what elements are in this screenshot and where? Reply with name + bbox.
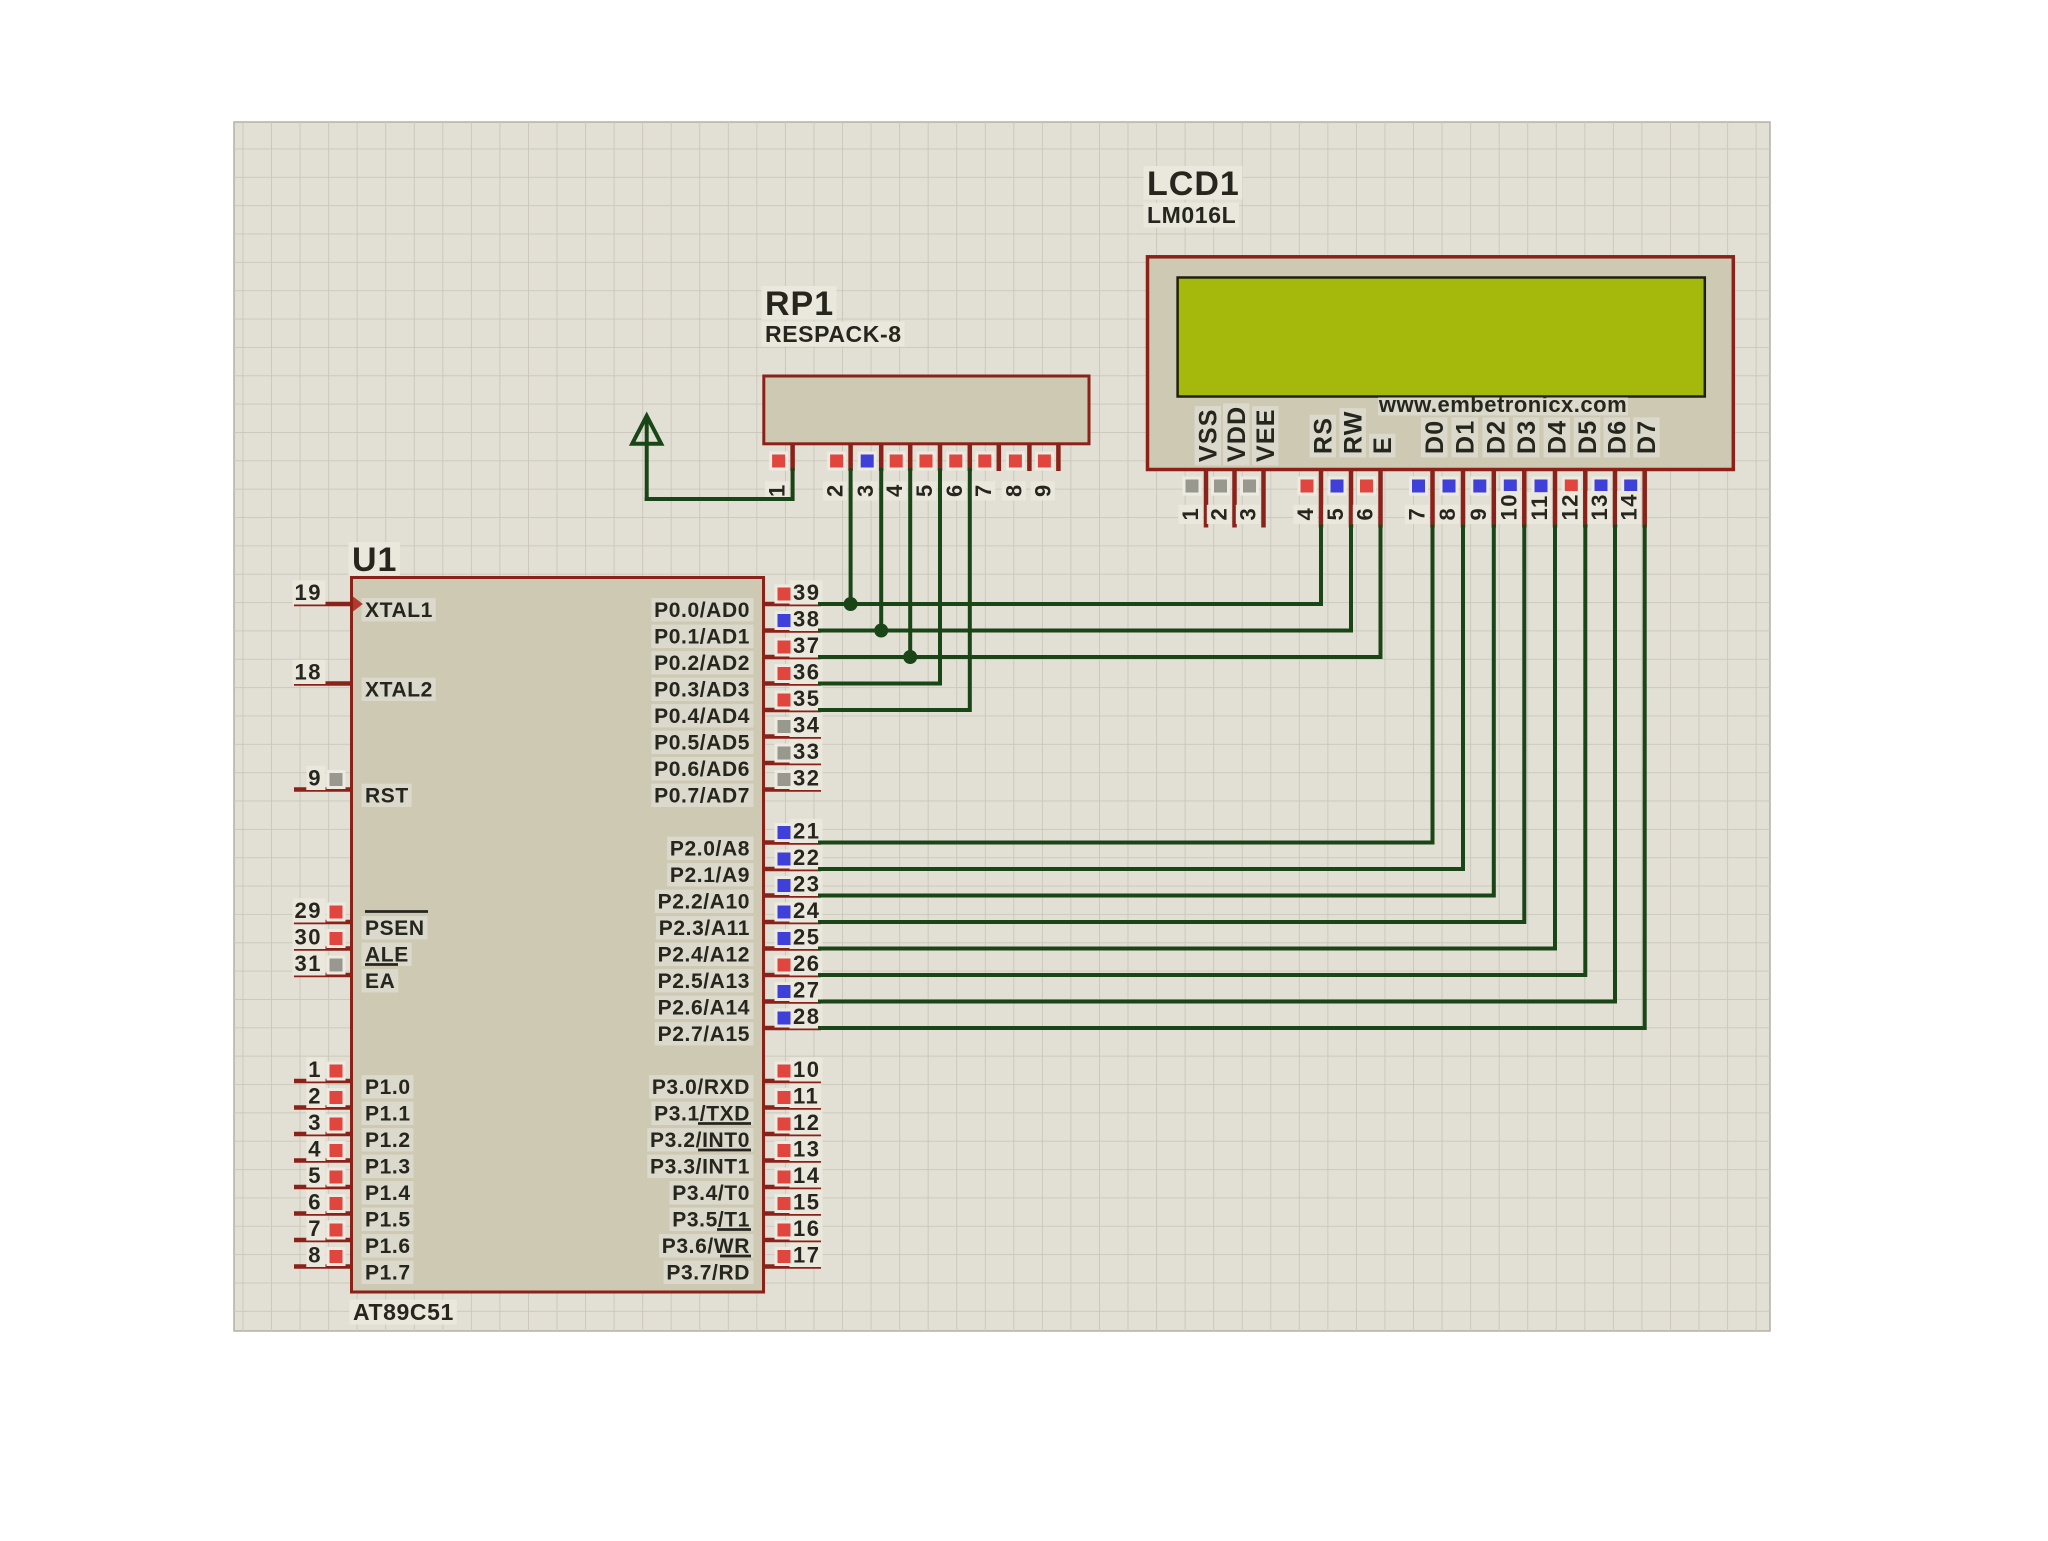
U1 pin 13 (P3.3/INT1) right stub, number and name [647,1137,822,1179]
U1 pin 16 (P3.6/WR) right stub, number and name [659,1216,823,1258]
LCD1 pin 6 (E) stub, rotated name, number and state square [1353,434,1398,528]
svg-text:15: 15 [793,1190,820,1215]
svg-text:P0.6/AD6: P0.6/AD6 [654,758,750,781]
U1 pin 4 (P1.3) left stub, number and name [294,1137,414,1179]
junction dot RP1 pin3 / P0.1 [874,624,888,638]
svg-text:AT89C51: AT89C51 [353,1299,454,1325]
resistor pack RP1 body (RESPACK-8) [764,376,1089,444]
svg-text:9: 9 [308,766,322,791]
svg-text:P2.0/A8: P2.0/A8 [670,838,750,861]
U1 pin 6 (P1.5) left stub, number and name [294,1190,414,1232]
U1 pin 22 (P2.1/A9) right stub, number and name [667,845,822,887]
U1 pin 28 (P2.7/A15) right stub, number and name [655,1004,823,1046]
svg-text:P2.4/A12: P2.4/A12 [658,944,750,967]
svg-text:16: 16 [793,1216,820,1241]
U1 pin 36 (P0.3/AD3) right stub, number and name [651,660,822,702]
svg-text:P2.6/A14: P2.6/A14 [658,997,750,1020]
svg-text:10: 10 [1496,493,1521,520]
svg-text:2: 2 [308,1084,322,1109]
LCD1 pin 14 (D7) stub, rotated name, number and state square [1617,417,1662,527]
svg-text:P3.2/INT0: P3.2/INT0 [650,1129,750,1152]
U1 body: AT89C51 microcontroller rectangle [352,578,764,1293]
svg-text:4: 4 [308,1137,322,1162]
svg-text:8: 8 [1001,483,1026,497]
svg-text:P2.5/A13: P2.5/A13 [658,970,750,993]
svg-text:11: 11 [1527,494,1552,520]
svg-text:32: 32 [793,766,820,791]
svg-text:P3.7/RD: P3.7/RD [666,1262,750,1285]
svg-text:2: 2 [823,483,848,497]
svg-text:22: 22 [793,845,820,870]
svg-text:P0.0/AD0: P0.0/AD0 [654,599,750,622]
U1 pin 3 (P1.2) left stub, number and name [294,1110,414,1152]
svg-text:24: 24 [793,898,820,923]
U1 pin 12 (P3.2/INT0) right stub, number and name [647,1110,822,1152]
svg-text:P1.1: P1.1 [365,1103,411,1126]
svg-text:P0.1/AD1: P0.1/AD1 [654,626,750,649]
svg-text:14: 14 [793,1163,820,1188]
svg-text:D7: D7 [1633,420,1661,454]
wire net P2.1/A9 to LCD D1 (pin 8) [820,527,1463,870]
svg-text:30: 30 [295,925,322,950]
wire net P2.5/A13 to LCD D5 (pin 12) [820,527,1585,976]
svg-text:P0.2/AD2: P0.2/AD2 [654,652,750,675]
U1 value label AT89C51 [350,1299,457,1325]
svg-text:5: 5 [912,483,937,497]
U1 pin 38 (P0.1/AD1) right stub, number and name [651,607,822,649]
svg-text:ALE: ALE [365,944,409,967]
svg-text:13: 13 [1587,493,1612,520]
svg-text:P0.3/AD3: P0.3/AD3 [654,679,750,702]
svg-text:37: 37 [793,633,820,658]
U1 pin 30 (ALE) left stub, number and name [293,925,412,967]
svg-text:6: 6 [1353,507,1378,521]
svg-text:D6: D6 [1604,420,1632,454]
U1 pin 18 (XTAL2) left stub, number and name [293,660,436,702]
wire RP1 pin 2 down to P0.0 net [849,470,853,604]
svg-text:P3.1/TXD: P3.1/TXD [654,1103,750,1126]
svg-text:21: 21 [793,819,820,844]
svg-text:5: 5 [308,1163,322,1188]
svg-text:P0.4/AD4: P0.4/AD4 [654,705,750,728]
svg-text:27: 27 [793,978,820,1003]
svg-text:38: 38 [793,607,820,632]
junction dot RP1 pin2 / P0.0 [844,597,858,611]
svg-text:17: 17 [793,1243,820,1268]
U1 pin 14 (P3.4/T0) right stub, number and name [669,1163,822,1205]
svg-text:2: 2 [1207,507,1232,521]
svg-text:9: 9 [1030,483,1055,497]
LCD1 pin 2 (VDD) stub, rotated name, number and state square [1207,403,1252,527]
RP1 pin 6 stub, number and state square [942,444,970,501]
svg-text:P2.2/A10: P2.2/A10 [658,891,750,914]
U1 pin 27 (P2.6/A14) right stub, number and name [655,978,823,1020]
svg-text:D4: D4 [1544,420,1572,454]
svg-text:www.embetronicx.com: www.embetronicx.com [1378,392,1627,417]
svg-text:U1: U1 [352,541,397,579]
wire RP1 pin 4 down to P0.2 net [908,470,912,657]
U1 pin 24 (P2.3/A11) right stub, number and name [656,898,823,940]
svg-text:12: 12 [1557,493,1582,520]
svg-text:7: 7 [308,1216,322,1241]
RP1 value label RESPACK-8 [762,321,905,347]
LCD1 watermark text www.embetronicx.com [1378,392,1628,417]
LCD1 pin 4 (RS) stub, rotated name, number and state square [1293,415,1338,528]
U1 pin 25 (P2.4/A12) right stub, number and name [655,925,823,967]
svg-text:9: 9 [1466,507,1491,521]
svg-text:3: 3 [1236,507,1261,521]
LCD1 pin 7 (D0) stub, rotated name, number and state square [1405,417,1450,527]
svg-text:P1.2: P1.2 [365,1129,411,1152]
RP1 pin 9 stub, number and state square [1030,444,1058,501]
svg-text:8: 8 [1435,507,1460,521]
LCD1 pin 1 (VSS) stub, rotated name, number and state square [1178,406,1223,527]
svg-text:3: 3 [308,1110,322,1135]
svg-text:P2.3/A11: P2.3/A11 [659,917,750,940]
svg-text:XTAL2: XTAL2 [365,679,433,702]
LCD1 pin 10 (D3) stub, rotated name, number and state square [1496,417,1541,527]
svg-text:P1.5: P1.5 [365,1209,411,1232]
wire net P0.4/AD4 to RP1 pin 6 [820,470,970,710]
svg-text:P1.3: P1.3 [365,1156,411,1179]
svg-text:PSEN: PSEN [365,917,425,940]
svg-text:XTAL1: XTAL1 [365,599,433,622]
svg-text:RW: RW [1340,410,1368,454]
RP1 pin 5 stub, number and state square [912,444,940,501]
LCD1 pin 5 (RW) stub, rotated name, number and state square [1323,408,1368,527]
LCD1 pin 9 (D2) stub, rotated name, number and state square [1466,417,1511,527]
U1 pin 7 (P1.6) left stub, number and name [294,1216,414,1258]
svg-text:E: E [1369,436,1397,454]
svg-text:35: 35 [793,686,820,711]
svg-text:VEE: VEE [1252,408,1280,462]
svg-text:EA: EA [365,970,395,993]
svg-text:P1.4: P1.4 [365,1182,411,1205]
svg-text:23: 23 [793,872,820,897]
LCD1 pin 12 (D5) stub, rotated name, number and state square [1557,417,1602,527]
schematic sheet grid background [234,122,1770,1331]
wire net P0.1/AD1 to LCD RW (pin5) [820,527,1351,631]
wire from power arrow to RP1 pin 1 [647,470,793,499]
U1 pin 34 (P0.5/AD5) right stub, number and name [651,713,822,755]
svg-text:D3: D3 [1513,420,1541,454]
wire net P2.2/A10 to LCD D2 (pin 9) [820,527,1494,896]
svg-text:7: 7 [1405,507,1430,521]
svg-text:31: 31 [295,951,322,976]
RP1 reference designator label [762,285,837,323]
U1 pin 26 (P2.5/A13) right stub, number and name [655,951,823,993]
svg-text:D5: D5 [1574,420,1602,454]
svg-text:28: 28 [793,1004,820,1029]
svg-text:P1.7: P1.7 [365,1262,411,1285]
svg-text:P3.5/T1: P3.5/T1 [672,1209,750,1232]
svg-text:1: 1 [1178,507,1203,521]
svg-text:34: 34 [793,713,820,738]
U1 pin 39 (P0.0/AD0) right stub, number and name [651,580,822,622]
svg-text:36: 36 [793,660,820,685]
svg-text:P3.3/INT1: P3.3/INT1 [650,1156,750,1179]
wire net P0.3/AD3 to RP1 pin 5 [820,470,940,684]
svg-text:P2.7/A15: P2.7/A15 [658,1023,750,1046]
svg-text:18: 18 [295,660,322,685]
junction dot RP1 pin4 / P0.2 [903,650,917,664]
U1 pin 15 (P3.5/T1) right stub, number and name [669,1190,822,1232]
svg-text:LCD1: LCD1 [1147,165,1240,203]
power symbol VCC arrow near RP1 pin 1 [632,416,661,499]
svg-text:1: 1 [765,483,790,497]
U1 pin 1 (P1.0) left stub, number and name [294,1057,414,1099]
U1 pin 17 (P3.7/RD) right stub, number and name [664,1243,823,1285]
svg-text:LM016L: LM016L [1147,202,1236,228]
U1 pin 21 (P2.0/A8) right stub, number and name [667,819,822,861]
RP1 pin 7 stub, number and state square [971,444,999,501]
wire net P2.3/A11 to LCD D3 (pin 10) [820,527,1524,923]
U1 pin 8 (P1.7) left stub, number and name [294,1243,414,1285]
svg-text:13: 13 [793,1137,820,1162]
wire net P2.6/A14 to LCD D6 (pin 13) [820,527,1615,1002]
svg-text:P0.7/AD7: P0.7/AD7 [654,785,750,808]
svg-text:5: 5 [1323,507,1348,521]
svg-text:33: 33 [793,739,820,764]
U1 pin 31 (EA) left stub, number and name [293,951,399,993]
svg-text:RST: RST [365,785,409,808]
wire net P2.7/A15 to LCD D7 (pin 14) [820,527,1645,1029]
svg-text:39: 39 [793,580,820,605]
U1 pin 32 (P0.7/AD7) right stub, number and name [651,766,822,808]
svg-text:D1: D1 [1452,420,1480,454]
svg-text:P1.6: P1.6 [365,1235,411,1258]
U1 reference designator label [349,541,401,579]
svg-text:VSS: VSS [1195,408,1223,462]
svg-text:P3.0/RXD: P3.0/RXD [652,1076,750,1099]
svg-text:P2.1/A9: P2.1/A9 [670,864,750,887]
LCD1 pin 13 (D6) stub, rotated name, number and state square [1587,417,1632,527]
svg-text:3: 3 [853,483,878,497]
LCD1 green display screen [1178,278,1705,397]
svg-text:11: 11 [793,1084,819,1109]
RP1 pin 4 stub, number and state square [882,444,910,501]
wire RP1 pin 3 down to P0.1 net [879,470,883,631]
svg-text:19: 19 [295,580,322,605]
svg-text:8: 8 [308,1243,322,1268]
wire net P2.0/A8 to LCD D0 (pin 7) [820,527,1433,843]
LCD1 pin 11 (D4) stub, rotated name, number and state square [1527,417,1572,527]
wire net P2.4/A12 to LCD D4 (pin 11) [820,527,1555,949]
svg-text:RP1: RP1 [765,285,834,323]
svg-text:10: 10 [793,1057,820,1082]
svg-text:P3.4/T0: P3.4/T0 [672,1182,750,1205]
svg-text:4: 4 [882,483,907,497]
svg-text:4: 4 [1293,507,1318,521]
U1 pin 19 (XTAL1) left stub, number and name [293,580,436,622]
svg-text:P1.0: P1.0 [365,1076,411,1099]
LCD1 value label LM016L [1144,202,1240,228]
U1 pin 23 (P2.2/A10) right stub, number and name [655,872,823,914]
LCD1 pin 8 (D1) stub, rotated name, number and state square [1435,417,1480,527]
svg-text:7: 7 [971,483,996,497]
RP1 pin 1 stub, number and state square [765,444,793,501]
svg-text:6: 6 [942,483,967,497]
svg-text:RS: RS [1310,417,1338,454]
svg-text:VDD: VDD [1223,406,1251,462]
LCD1 pin 3 (VEE) stub, rotated name, number and state square [1236,406,1281,527]
svg-text:RESPACK-8: RESPACK-8 [765,321,902,347]
svg-text:P3.6/WR: P3.6/WR [662,1235,750,1258]
RP1 pin 3 stub, number and state square [853,444,881,501]
svg-text:25: 25 [793,925,820,950]
U1 pin 5 (P1.4) left stub, number and name [294,1163,414,1205]
U1 pin 29 (PSEN) left stub, number and name [293,898,429,940]
U1 pin 33 (P0.6/AD6) right stub, number and name [651,739,822,781]
LCD1 module body (LM016L) [1148,257,1734,470]
LCD1 reference designator label [1144,165,1243,203]
RP1 pin 2 stub, number and state square [823,444,851,501]
wire net P0.2/AD2 to LCD E (pin6) [820,527,1381,658]
svg-text:6: 6 [308,1190,322,1215]
svg-text:P0.5/AD5: P0.5/AD5 [654,732,750,755]
U1 pin 35 (P0.4/AD4) right stub, number and name [651,686,822,728]
svg-text:D0: D0 [1421,420,1449,454]
U1 pin 9 (RST) left stub, number and name [294,766,412,808]
svg-text:D2: D2 [1482,420,1510,454]
RP1 pin 8 stub, number and state square [1001,444,1029,501]
U1 pin 10 (P3.0/RXD) right stub, number and name [649,1057,823,1099]
svg-text:1: 1 [308,1057,322,1082]
U1 pin 37 (P0.2/AD2) right stub, number and name [651,633,822,675]
svg-text:29: 29 [295,898,322,923]
wire net P0.0/AD0 to LCD RS (pin4) [820,527,1321,605]
U1 pin 11 (P3.1/TXD) right stub, number and name [651,1084,821,1126]
svg-text:26: 26 [793,951,820,976]
U1 pin 2 (P1.1) left stub, number and name [294,1084,414,1126]
svg-text:14: 14 [1617,493,1642,520]
svg-text:12: 12 [793,1110,820,1135]
